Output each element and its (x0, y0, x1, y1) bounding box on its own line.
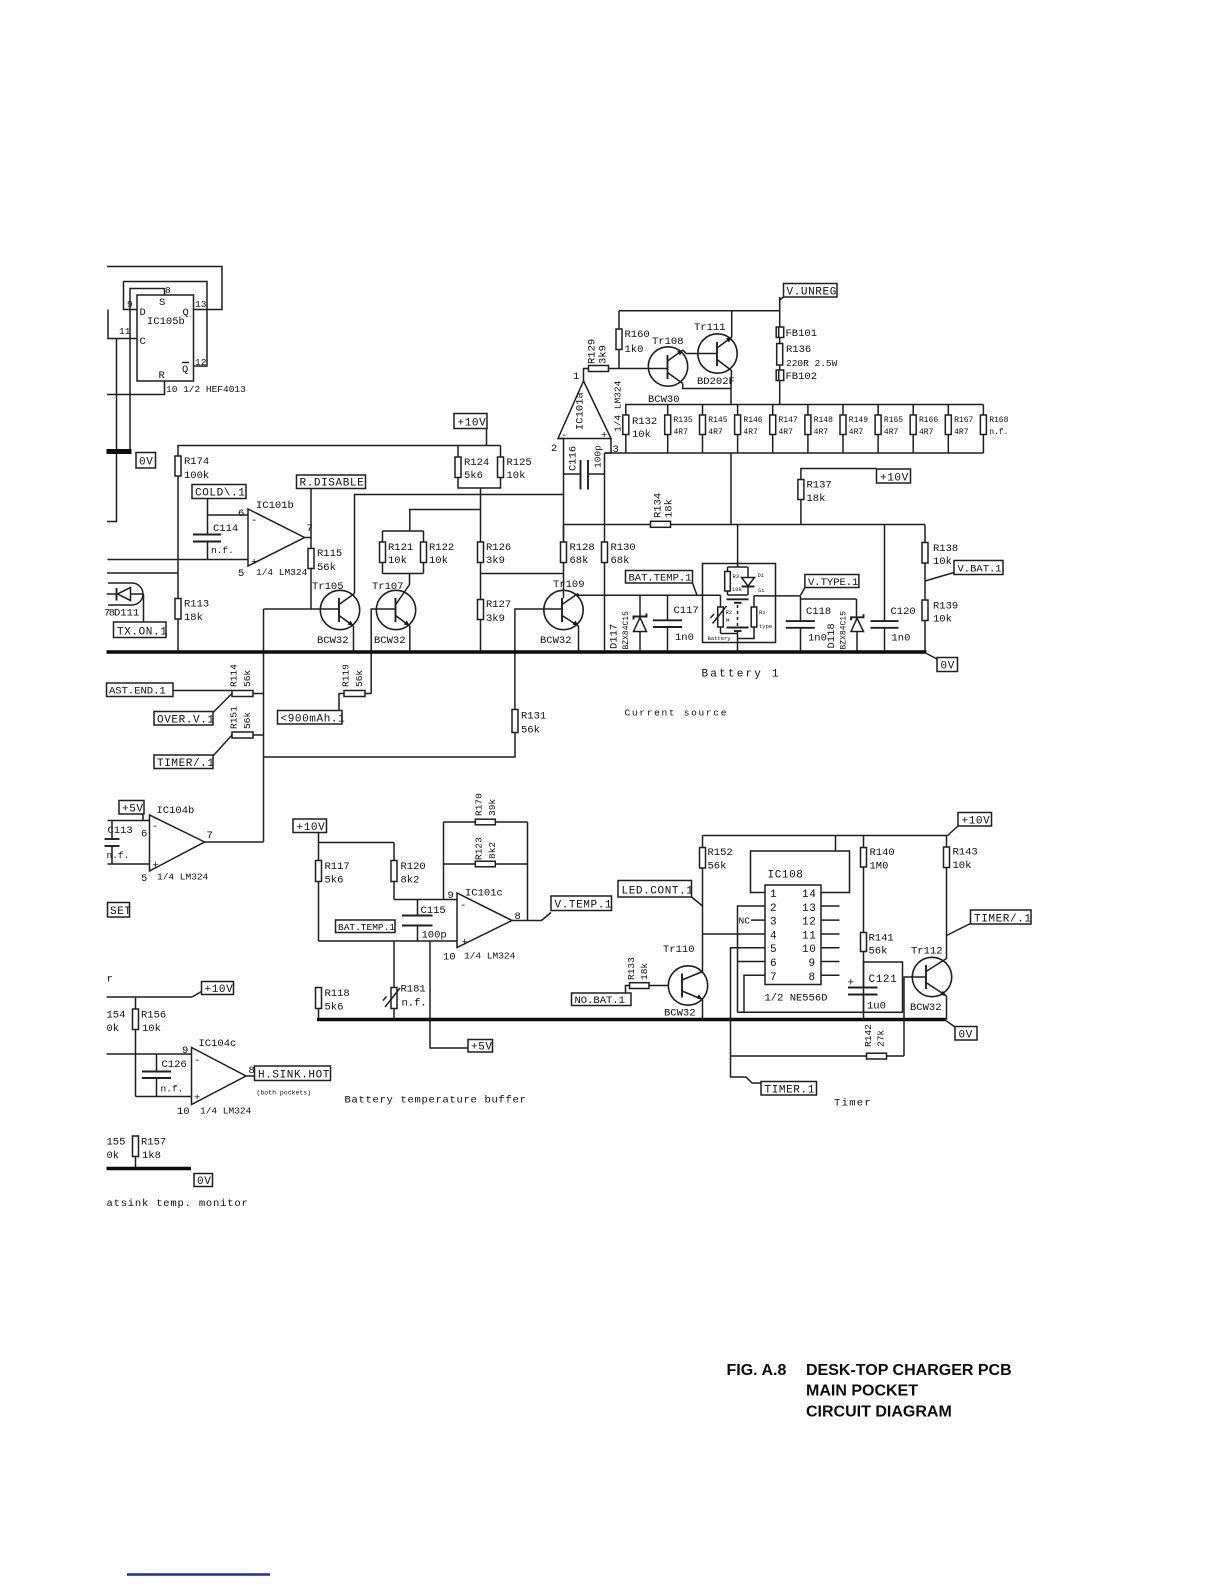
svg-text:155: 155 (107, 1137, 126, 1149)
resistor R132 (623, 415, 657, 453)
svg-text:-: - (460, 900, 466, 912)
resistor R114 (229, 664, 264, 697)
resistor R127 (478, 599, 512, 625)
pin3 NC stub (739, 916, 766, 927)
svg-text:56k: 56k (708, 861, 727, 873)
node V.BAT.1 label (925, 561, 1003, 582)
resistor R126 (478, 542, 512, 567)
svg-text:BCW32: BCW32 (664, 1008, 696, 1020)
capacitor C120 (871, 525, 916, 653)
svg-text:V.BAT.1: V.BAT.1 (958, 564, 1002, 576)
wire FB102 to bank rail (779, 381, 781, 405)
wire Tr107 base rail to below-bus (371, 609, 395, 694)
wire IC108 pin1/pin14 loop to +10V (751, 851, 850, 893)
svg-text:11: 11 (119, 326, 131, 337)
svg-text:1/4 LM324: 1/4 LM324 (613, 380, 624, 432)
wire rail y524.5 (564, 524, 651, 526)
svg-text:IC101b: IC101b (256, 500, 294, 512)
resistor R154 clipped labels (107, 1010, 126, 1036)
resistor R167 (945, 405, 973, 454)
wire rail right end to +10V (948, 826, 959, 836)
wire S pin8 down left bus (130, 289, 165, 452)
svg-text:Tr109: Tr109 (553, 579, 585, 591)
svg-text:10k: 10k (632, 429, 651, 441)
svg-text:R151: R151 (229, 706, 240, 729)
wire Tr107 collector from pair bottom (396, 574, 410, 605)
svg-text:1M0: 1M0 (870, 861, 889, 873)
resistor R170 (473, 793, 498, 825)
wire bottom link y1012 (738, 1011, 903, 1013)
svg-text:Battery: Battery (708, 635, 732, 642)
svg-text:BCW30: BCW30 (648, 394, 680, 406)
svg-text:n.f.: n.f. (402, 998, 427, 1010)
svg-text:R149: R149 (849, 416, 868, 425)
svg-text:10k: 10k (429, 555, 448, 567)
resistor R151 (229, 706, 264, 738)
wire IC104b minus input (108, 820, 150, 822)
wire battery top rail y595 (578, 594, 721, 596)
svg-text:IC105b: IC105b (147, 316, 185, 328)
svg-text:R117: R117 (325, 861, 350, 873)
svg-text:n.f.: n.f. (161, 1084, 184, 1095)
svg-text:R181: R181 (401, 984, 426, 996)
wire +10V rail monitor (107, 996, 193, 998)
svg-text:C117: C117 (674, 605, 699, 617)
svg-text:68k: 68k (570, 555, 589, 567)
svg-text:LED.CONT.1: LED.CONT.1 (622, 886, 694, 898)
resistor R145 (700, 405, 728, 454)
wire R1 top to V.TYPE rail (754, 595, 801, 597)
svg-text:+10V: +10V (297, 822, 326, 834)
wire IC104b output to R131 loop (205, 841, 264, 843)
svg-text:9: 9 (182, 1045, 188, 1057)
node <900mAh.1 label (278, 694, 346, 726)
resistor R125 (498, 446, 532, 483)
op-amp IC104c (177, 1038, 255, 1118)
wire rail y524.5 right part (671, 524, 926, 526)
svg-text:TIMER/.1: TIMER/.1 (974, 914, 1032, 926)
svg-text:4: 4 (770, 930, 777, 942)
wire Tr112 emitter to bus (946, 996, 948, 1020)
node OVER.V.1 label (154, 694, 232, 727)
resistor R135 (665, 405, 693, 454)
node V.TYPE.1 label (801, 575, 859, 596)
svg-text:Tr107: Tr107 (372, 581, 404, 593)
ground 0V bus second (317, 1018, 947, 1022)
wire R121/R122 bottom bar (383, 573, 424, 575)
node LED.CONT.1 label (618, 881, 703, 907)
node 0V label (136, 453, 156, 469)
svg-text:R123: R123 (473, 837, 484, 860)
svg-text:4R7: 4R7 (884, 428, 899, 437)
resistor R120 (391, 843, 426, 900)
svg-text:Battery 1: Battery 1 (702, 669, 781, 681)
svg-text:56k: 56k (354, 670, 365, 687)
wire long vertical x263 (base to R114/R151/R131 loop) (263, 609, 265, 842)
svg-text:R166: R166 (919, 416, 938, 425)
svg-text:Tr105: Tr105 (312, 581, 344, 593)
svg-text:1k8: 1k8 (142, 1150, 161, 1162)
svg-text:BCW32: BCW32 (374, 635, 406, 647)
svg-text:NC: NC (739, 916, 751, 927)
wire IC101b output node7 (305, 537, 312, 539)
svg-text:3k9: 3k9 (486, 555, 505, 567)
svg-text:+10V: +10V (962, 816, 991, 828)
wire IC101c pin9 (394, 899, 457, 901)
svg-text:0V: 0V (959, 1030, 973, 1042)
svg-text:C126: C126 (162, 1059, 187, 1071)
svg-text:3: 3 (613, 444, 619, 456)
power +10V label top middle (454, 414, 487, 446)
resistor R128 (561, 525, 595, 599)
svg-text:2: 2 (770, 903, 777, 915)
svg-text:220R 2.5W: 220R 2.5W (786, 358, 838, 369)
svg-text:BCW32: BCW32 (910, 1002, 942, 1014)
svg-text:0V: 0V (941, 661, 955, 673)
op-amp IC101a (551, 371, 624, 456)
svg-text:R1: R1 (759, 609, 766, 616)
svg-text:1/4 LM324: 1/4 LM324 (464, 951, 516, 962)
resistor R139 (922, 563, 958, 652)
svg-text:BAT.TEMP.1: BAT.TEMP.1 (629, 573, 692, 585)
resistor R149 (840, 405, 868, 454)
node COLD\.1 label (192, 485, 246, 516)
resistor R123 (473, 837, 498, 867)
resistor R1 (battery model) (738, 596, 773, 639)
svg-text:9: 9 (809, 958, 816, 970)
svg-text:0V: 0V (139, 457, 153, 469)
wire IC101a output to R129 (584, 369, 589, 382)
ferrite FB101 (776, 297, 817, 340)
svg-text:5k6: 5k6 (464, 470, 483, 482)
svg-text:R3: R3 (733, 573, 740, 580)
svg-text:2: 2 (551, 443, 557, 455)
battery cell symbol (727, 595, 749, 652)
svg-text:R113: R113 (184, 599, 209, 611)
resistor R3 (battery model) (725, 567, 743, 595)
svg-text:10k: 10k (953, 860, 972, 872)
power +5V label (buffer) (468, 1040, 493, 1054)
svg-text:R: R (159, 370, 166, 382)
transistor Tr108 (648, 336, 688, 406)
svg-text:18k: 18k (639, 963, 650, 980)
svg-text:13: 13 (802, 903, 816, 915)
resistor R141 (861, 933, 894, 988)
svg-text:4R7: 4R7 (674, 428, 689, 437)
svg-text:-: - (152, 821, 158, 833)
svg-text:Current source: Current source (625, 708, 729, 719)
svg-text:MAIN POCKET: MAIN POCKET (806, 1383, 918, 1400)
svg-text:C121: C121 (869, 974, 898, 986)
svg-text:R120: R120 (401, 861, 426, 873)
svg-text:CIRCUIT DIAGRAM: CIRCUIT DIAGRAM (806, 1404, 952, 1421)
svg-text:(both pockets): (both pockets) (257, 1090, 312, 1097)
svg-text:0k: 0k (107, 1150, 120, 1162)
wire R127 to bus (480, 620, 482, 653)
node V.TEMP.1 label (542, 896, 613, 921)
svg-text:R146: R146 (743, 416, 762, 425)
svg-text:R139: R139 (933, 601, 958, 613)
resistor R147 (770, 405, 798, 454)
resistor R138 (922, 525, 958, 569)
resistor R166 (910, 405, 938, 454)
svg-text:IC104b: IC104b (157, 805, 195, 817)
wire IC101b plus input rail (108, 559, 249, 561)
svg-text:R136: R136 (786, 344, 811, 356)
wire IC104c plus input (136, 1096, 192, 1098)
svg-text:C120: C120 (891, 606, 916, 618)
svg-text:39k: 39k (487, 799, 498, 816)
node TX.ON.1 label (114, 594, 168, 639)
wire FAST.END to R114 (173, 690, 232, 692)
svg-text:BZX84C15: BZX84C15 (622, 611, 631, 650)
svg-text:COLD\.1: COLD\.1 (195, 488, 245, 500)
svg-text:BCW32: BCW32 (317, 635, 349, 647)
svg-text:C114: C114 (213, 523, 238, 535)
node 0V label monitor (194, 1174, 213, 1189)
svg-text:D117: D117 (609, 624, 621, 649)
resistor R136 (777, 338, 838, 370)
svg-text:R119: R119 (341, 664, 352, 687)
resistor R142 (731, 1024, 905, 1059)
resistor R152 (700, 836, 733, 972)
svg-text:100k: 100k (184, 470, 209, 482)
svg-text:5: 5 (770, 944, 777, 956)
wire Tr105 collector up to rail y494.5 (355, 495, 564, 594)
wire Tr109 base left to R131 (515, 609, 562, 710)
svg-text:8k2: 8k2 (487, 842, 498, 859)
node SET label (108, 903, 132, 919)
zener D117 (609, 595, 647, 652)
svg-text:V.TYPE.1: V.TYPE.1 (808, 577, 858, 589)
zener D118 (826, 599, 864, 652)
power +10V label timer (958, 813, 992, 828)
svg-text:1n0: 1n0 (675, 632, 694, 644)
resistor R174 (175, 456, 209, 482)
svg-text:10k: 10k (933, 556, 952, 568)
svg-text:SET: SET (110, 906, 132, 918)
svg-text:4R7: 4R7 (743, 428, 758, 437)
svg-text:4R7: 4R7 (919, 428, 934, 437)
svg-text:R135: R135 (674, 416, 693, 425)
svg-text:4R7: 4R7 (814, 428, 829, 437)
svg-text:56k: 56k (242, 670, 253, 687)
transistor Tr111 (694, 322, 737, 388)
svg-text:10: 10 (177, 1106, 190, 1118)
wire R126 to R127 (480, 563, 482, 600)
svg-text:10k: 10k (732, 586, 743, 593)
svg-text:BZX84C15: BZX84C15 (840, 611, 849, 650)
svg-text:9: 9 (448, 890, 454, 902)
svg-text:R128: R128 (570, 542, 595, 554)
svg-text:6: 6 (770, 958, 777, 970)
svg-text:18k: 18k (664, 499, 676, 518)
svg-text:R143: R143 (953, 847, 978, 859)
resistor R148 (805, 405, 833, 454)
power +10V label mid right (877, 469, 911, 485)
svg-text:R125: R125 (507, 457, 532, 469)
svg-text:FB102: FB102 (786, 371, 818, 383)
svg-text:1k0: 1k0 (625, 344, 644, 356)
svg-text:NO.BAT.1: NO.BAT.1 (575, 995, 625, 1007)
svg-text:R141: R141 (869, 933, 894, 945)
svg-text:5: 5 (238, 568, 244, 580)
node H.SINK.HOT label (246, 1066, 331, 1097)
svg-text:R122: R122 (429, 542, 454, 554)
svg-text:Battery temperature buffer: Battery temperature buffer (345, 1095, 527, 1107)
IC108 right pin stubs (821, 906, 840, 975)
svg-text:M: M (726, 617, 729, 624)
wire R pin10 (107, 381, 165, 395)
flip-flop IC105b (137, 295, 194, 382)
svg-text:R168: R168 (989, 416, 1008, 425)
svg-text:Tr110: Tr110 (663, 944, 695, 956)
svg-text:11: 11 (802, 930, 816, 942)
wire tee y573.5 to R128 bottom (481, 573, 564, 575)
svg-text:H.SINK.HOT: H.SINK.HOT (258, 1070, 330, 1082)
svg-text:+10V: +10V (458, 418, 487, 430)
wire Tr111 emitter to bank rail (730, 371, 733, 405)
svg-text:1: 1 (770, 889, 777, 901)
svg-text:8: 8 (809, 972, 816, 984)
power +10V label (buffer) (293, 819, 394, 843)
transistor Tr107 (372, 581, 416, 647)
resistor R160 (616, 311, 650, 369)
svg-text:+5V: +5V (471, 1042, 493, 1054)
svg-text:<900mAh.1: <900mAh.1 (281, 714, 346, 726)
wire Tr110 emitter to bus (702, 1000, 704, 1020)
svg-text:R121: R121 (388, 542, 413, 554)
svg-text:R165: R165 (884, 416, 903, 425)
resistor R121 (380, 531, 414, 574)
svg-text:18k: 18k (184, 612, 203, 624)
svg-text:-: - (194, 1055, 200, 1067)
svg-text:10k: 10k (507, 470, 526, 482)
svg-text:Q: Q (183, 307, 189, 319)
node 0V label right (927, 654, 958, 673)
svg-text:R114: R114 (229, 664, 240, 687)
svg-text:3k9: 3k9 (598, 345, 610, 364)
svg-text:+: + (601, 430, 607, 442)
svg-text:6: 6 (238, 508, 244, 520)
svg-text:100p: 100p (422, 930, 447, 942)
svg-text:n.f.: n.f. (211, 545, 234, 556)
wire IC108 pin6 (738, 961, 766, 963)
svg-text:1n0: 1n0 (808, 633, 827, 645)
svg-text:7: 7 (770, 972, 777, 984)
wire bank bottom rail y453 (605, 452, 984, 454)
svg-text:R124: R124 (464, 457, 489, 469)
svg-text:4R7: 4R7 (849, 428, 864, 437)
svg-text:Tr111: Tr111 (694, 322, 726, 334)
resistor R165 (875, 405, 903, 454)
wire left bus vertical (107, 339, 117, 522)
capacitor C113 (105, 821, 133, 865)
wire Tr108 emitter to join (683, 384, 731, 389)
svg-text:R127: R127 (486, 599, 511, 611)
wire Tr112 base to R142 (904, 977, 926, 1056)
wire left edge jog to R174 vertical (107, 572, 178, 574)
node FAST.END.1 label (107, 683, 174, 698)
resistor R122 (421, 531, 455, 574)
capacitor C117 (653, 595, 699, 652)
op-amp IC101b (238, 500, 313, 580)
wire C pin11 (108, 310, 137, 339)
svg-text:R138: R138 (933, 543, 958, 555)
wire IC101a pin2 vertical (558, 439, 564, 543)
wire V.UNREG rail y310.8 (619, 310, 780, 312)
svg-text:100p: 100p (593, 445, 604, 468)
svg-text:R137: R137 (807, 480, 832, 492)
capacitor C126 (142, 1054, 187, 1097)
capacitor C121 (848, 962, 903, 1020)
capacitor C114 (193, 515, 238, 560)
svg-text:18k: 18k (807, 493, 826, 505)
svg-text:BAT.TEMP.1: BAT.TEMP.1 (338, 922, 395, 933)
svg-text:12: 12 (802, 917, 816, 929)
wire +10V rail timer (703, 835, 948, 837)
node BAT.TEMP.1 label (buffer) (336, 920, 396, 933)
svg-text:+: + (153, 860, 159, 872)
wire IC101b minus input (208, 514, 249, 516)
wire bank top rail y404.5 (626, 405, 984, 416)
svg-text:R.DISABLE: R.DISABLE (300, 478, 365, 490)
svg-text:BD202F: BD202F (697, 376, 735, 388)
resistor R156 (133, 997, 167, 1097)
svg-text:3k9: 3k9 (486, 613, 505, 625)
svg-text:FIG. A.8: FIG. A.8 (727, 1362, 787, 1379)
wire IC101c output (512, 920, 542, 922)
transistor Tr109 (540, 579, 585, 647)
wire IC101a pin3 to C116/R130 (605, 439, 612, 454)
transistor Tr110 (663, 944, 708, 1020)
svg-text:Tr112: Tr112 (911, 946, 943, 958)
svg-text:V.UNREG: V.UNREG (787, 287, 837, 299)
svg-text:IC101c: IC101c (465, 888, 503, 900)
svg-text:TX.ON.1: TX.ON.1 (117, 627, 167, 639)
svg-text:R132: R132 (632, 416, 657, 428)
resistor R113 (175, 599, 209, 653)
svg-text:-: - (251, 515, 257, 527)
wire feedback loops (444, 821, 476, 823)
wire Q pin13 top loop (107, 267, 222, 310)
svg-text:7: 7 (207, 830, 213, 842)
resistor R168 n.f. (980, 405, 1008, 454)
node NO.BAT.1 label (572, 993, 632, 1007)
diode D111 package (104, 583, 144, 620)
wire bank rail drop x731 (730, 453, 732, 525)
wire IC101c plus rail (319, 940, 458, 942)
svg-text:R2: R2 (726, 609, 733, 616)
svg-text:27k: 27k (875, 1030, 886, 1047)
resistor R130 (602, 542, 636, 652)
svg-text:D118: D118 (826, 623, 838, 648)
svg-text:Si: Si (758, 587, 765, 594)
resistor R155 clipped labels (107, 1137, 126, 1163)
resistor R118 (316, 988, 350, 1020)
svg-text:R126: R126 (486, 542, 511, 554)
svg-text:4R7: 4R7 (954, 428, 969, 437)
wire +10V rail y445 (178, 446, 501, 457)
svg-text:S: S (159, 297, 165, 309)
svg-text:IC108: IC108 (768, 870, 804, 882)
IC105b pin numbers (119, 285, 246, 395)
svg-text:D1: D1 (758, 572, 765, 579)
node 0V label timer (947, 1021, 978, 1042)
svg-text:7: 7 (307, 523, 313, 535)
wire Tr111 collector to rail (731, 311, 733, 337)
svg-text:AST.END.1: AST.END.1 (109, 686, 166, 698)
